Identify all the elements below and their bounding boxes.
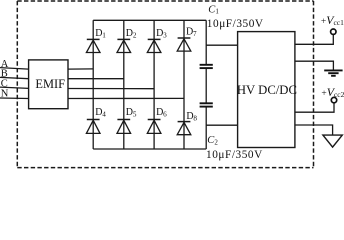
terminal +Vcc2: [331, 97, 336, 102]
svg-text:EMIF: EMIF: [35, 77, 65, 91]
diode D7: [177, 38, 191, 51]
wire phase A to bridge column 1: [68, 68, 93, 70]
diode D6: [147, 120, 161, 134]
wire phase N to bridge column 4: [68, 97, 184, 99]
wire phase B input: [0, 77, 29, 78]
ground (earth bars): [324, 70, 342, 75]
wire positive DC top bus: [93, 19, 206, 21]
wire phase C to bridge column 3: [68, 88, 154, 90]
wire converter to +Vcc2 terminal: [295, 103, 334, 112]
diode D2: [117, 39, 131, 52]
svg-text:HV DC/DC: HV DC/DC: [237, 83, 297, 97]
wire cap column to converter top: [206, 44, 237, 46]
wire cap column to converter bottom: [206, 124, 237, 126]
wire converter to +Vcc1 terminal: [295, 34, 333, 44]
ground (chassis triangle): [323, 135, 342, 147]
wire bridge column 3: [153, 20, 155, 149]
capacitor C2: [200, 103, 213, 106]
EMI filter block EMIF: [29, 60, 68, 109]
svg-text:10μF/350V: 10μF/350V: [206, 149, 263, 161]
diode D8: [177, 122, 191, 135]
wire phase B to bridge column 2: [68, 78, 124, 80]
converter block HV DC/DC: [238, 32, 295, 148]
diode D1: [86, 39, 100, 52]
wire converter to ground 1: [295, 61, 334, 69]
wire bridge column 4: [183, 20, 185, 149]
diode D4: [86, 120, 100, 134]
svg-text:10μF/350V: 10μF/350V: [207, 18, 264, 30]
wire bridge column 2: [123, 20, 125, 149]
diode D5: [117, 120, 131, 134]
capacitor C1: [200, 65, 213, 68]
wire phase N input: [0, 97, 29, 100]
wire phase C input: [0, 87, 29, 88]
wire capacitor column: [205, 20, 207, 64]
dashed enclosure border: [17, 1, 313, 168]
terminal +Vcc1: [331, 29, 336, 34]
wire bridge column 1: [92, 20, 94, 149]
wire phase A input: [0, 68, 29, 70]
wire converter to ground 2: [295, 125, 333, 135]
wire negative DC bottom bus: [93, 148, 206, 150]
diode D3: [147, 39, 161, 52]
